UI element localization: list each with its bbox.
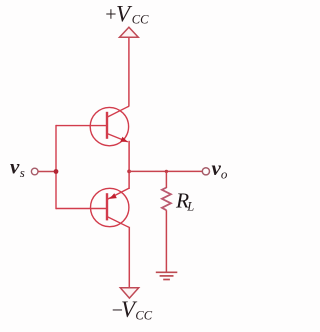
wire RL to ground — [165, 210, 167, 272]
transistor Q2 (PNP) — [91, 188, 129, 227]
power arrow -VCC — [120, 288, 138, 298]
svg-text:s: s — [20, 165, 25, 180]
svg-text:CC: CC — [132, 13, 149, 27]
wire base bus bottom — [56, 208, 107, 210]
label vs — [10, 155, 25, 180]
wire collector Q1 to +VCC — [128, 37, 130, 106]
junction resistor node — [165, 170, 168, 173]
wire emitter Q1 to output node — [128, 141, 130, 172]
wire emitter Q2 to output node — [128, 171, 130, 189]
ground — [156, 272, 178, 279]
label +VCC — [104, 2, 149, 27]
label RL — [175, 189, 194, 214]
svg-text:o: o — [221, 167, 228, 182]
terminal vo — [202, 168, 209, 175]
wire output node to vo — [129, 170, 202, 172]
transistor Q1 (NPN) — [90, 106, 129, 146]
wire output node to RL — [165, 171, 167, 188]
junction output node — [127, 170, 131, 174]
junction input node — [54, 169, 59, 174]
svg-text:L: L — [186, 199, 194, 213]
resistor RL — [162, 188, 171, 211]
power arrow +VCC — [120, 27, 139, 37]
wire vs to bus — [38, 171, 56, 173]
svg-text:CC: CC — [135, 308, 152, 322]
label -VCC — [111, 297, 153, 323]
svg-text:v: v — [10, 155, 20, 179]
terminal vs — [31, 168, 38, 175]
wire base bus top — [56, 125, 107, 127]
label vo — [212, 156, 228, 181]
wire base bus left vertical — [55, 125, 57, 209]
wire collector Q2 to -VCC — [128, 227, 130, 288]
